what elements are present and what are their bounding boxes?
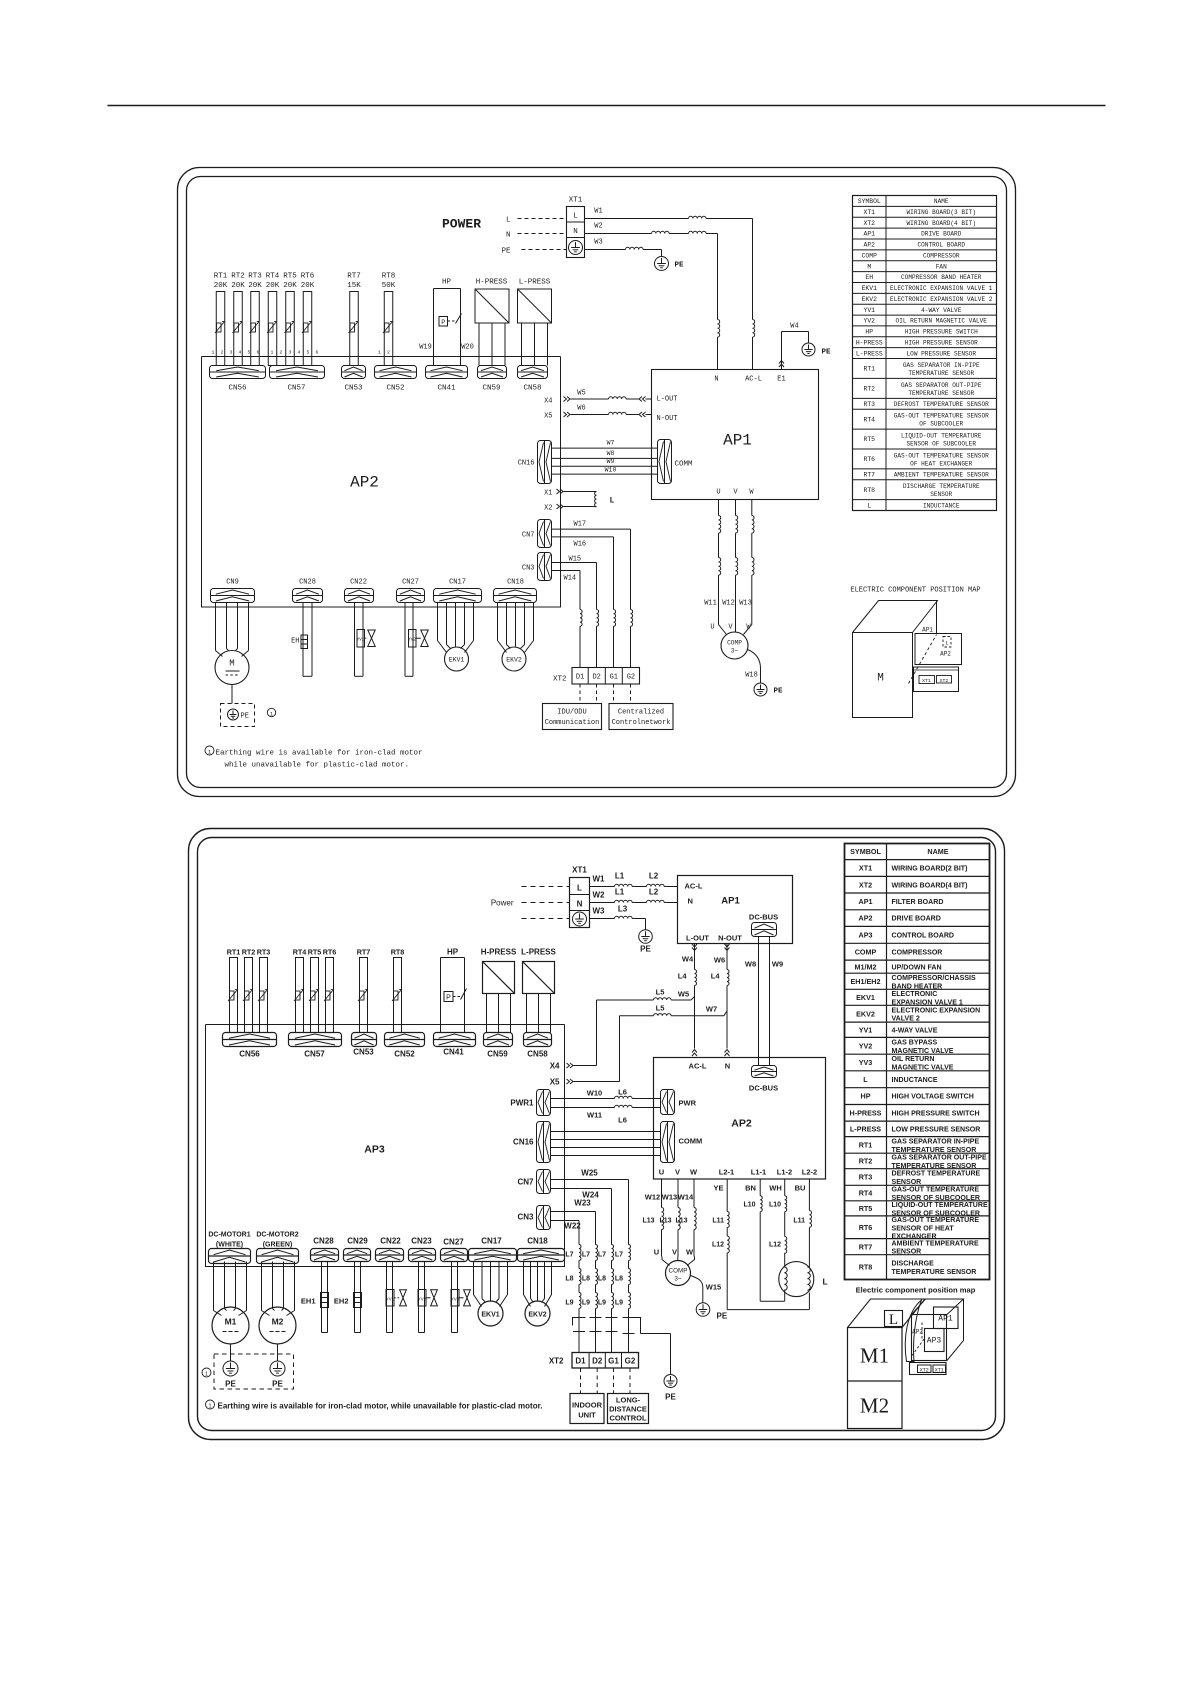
svg-text:EKV1: EKV1 [449,657,465,664]
svg-text:N: N [577,900,583,909]
svg-text:DC-MOTOR1: DC-MOTOR1 [208,1232,250,1239]
svg-text:INDUCTANCE: INDUCTANCE [892,1077,938,1084]
svg-text:3~: 3~ [731,648,739,655]
svg-text:COMP: COMP [862,252,878,259]
svg-text:YV1: YV1 [386,1297,395,1302]
svg-text:CN28: CN28 [313,1237,334,1246]
4-way valve YV1 (panel 1) [355,603,376,677]
wire W22 [551,1221,582,1245]
wire YE with beads L11 L12 [712,1179,809,1310]
svg-text:YE: YE [713,1184,723,1193]
svg-text:6: 6 [257,350,260,356]
connector CN18 (panel 1) [494,579,537,603]
connector CN57 (panel 2) [289,1033,342,1059]
svg-text:UP/DOWN FAN: UP/DOWN FAN [892,964,942,971]
svg-text:W2: W2 [593,891,606,900]
svg-text:EKV1: EKV1 [856,993,875,1002]
position map unit body M (panel 1) [853,601,938,718]
svg-text:CN22: CN22 [380,1237,401,1246]
svg-text:GAS SEPARATOR IN-PIPE: GAS SEPARATOR IN-PIPE [892,1139,980,1146]
svg-text:3: 3 [289,350,292,356]
svg-text:YV1: YV1 [863,307,875,314]
svg-text:CN28: CN28 [299,579,316,587]
svg-text:RT7: RT7 [863,472,875,479]
svg-text:WH: WH [769,1184,782,1193]
svg-text:LOW PRESSURE SENSOR: LOW PRESSURE SENSOR [907,350,977,357]
svg-text:CN7: CN7 [517,1178,534,1187]
connector CN57 [270,366,325,393]
thermistor RT8 50K [382,273,396,366]
svg-text:BU: BU [795,1184,806,1193]
svg-text:XT2: XT2 [863,220,875,227]
svg-text:ELECTRONIC EXPANSION: ELECTRONIC EXPANSION [892,1007,981,1014]
electric component position map title (panel 1) [850,587,980,595]
svg-text:CN41: CN41 [437,385,456,393]
wire W4 with bead L4 [678,944,697,1049]
connector DC-MOTOR1 (WHITE) [208,1232,250,1264]
svg-text:W3: W3 [593,907,606,916]
svg-text:NAME: NAME [927,847,948,856]
svg-text:COMM: COMM [675,461,694,469]
wire W1 [585,208,753,320]
svg-text:L11: L11 [712,1218,724,1225]
connector CN7 (panel 1) [522,520,552,548]
oil return magnetic valve YV3 (panel 2) [451,1262,470,1333]
svg-text:L: L [945,640,948,647]
svg-text:XT2: XT2 [549,1357,564,1366]
drive board AP1 box [652,370,819,500]
svg-text:YV3: YV3 [451,1297,460,1302]
connector CN58 [518,366,548,393]
svg-text:L7: L7 [565,1252,573,1259]
svg-text:CN22: CN22 [350,579,367,587]
svg-text:L8: L8 [598,1276,606,1283]
position map AP2 label [912,1329,923,1336]
svg-text:CN27: CN27 [402,579,419,587]
svg-text:AP3: AP3 [859,930,873,939]
svg-text:W13: W13 [739,600,752,608]
svg-text:DISTANCE: DISTANCE [609,1405,647,1414]
svg-text:RT2: RT2 [863,386,875,393]
svg-text:PE: PE [822,349,832,357]
svg-text:POWER: POWER [442,217,481,232]
svg-text:PE: PE [225,1380,236,1389]
svg-text:W11: W11 [587,1111,602,1120]
wire W14 with bead L13 [675,1179,696,1257]
wire W2 with beads L1 L2 [590,888,678,903]
ferrite beads on communication wires [580,610,633,668]
svg-text:LIQUID-OUT TEMPERATURE: LIQUID-OUT TEMPERATURE [901,432,982,439]
electronic expansion valve EKV1 (panel 2) [474,1262,508,1327]
svg-text:FAN: FAN [936,263,947,270]
svg-text:AMBIENT TEMPERATURE SENSOR: AMBIENT TEMPERATURE SENSOR [894,472,989,479]
svg-text:CN52: CN52 [394,1050,415,1059]
svg-text:L5: L5 [656,988,665,997]
pin numbers above CN57 [271,350,319,356]
svg-text:RT1: RT1 [227,948,241,957]
connector CN28 (panel 1) [293,579,323,603]
svg-text:INDOOR: INDOOR [572,1401,603,1410]
svg-text:YV2: YV2 [859,1041,873,1050]
filter board AP1 (panel 2) [678,876,793,944]
svg-text:HP: HP [442,279,452,287]
svg-text:L12: L12 [769,1242,781,1249]
svg-text:LONG-: LONG- [616,1396,641,1405]
connector CN17 (panel 1) [434,579,482,603]
electronic expansion valve EKV1 (panel 1) [438,603,474,672]
Centralized Control network box [609,684,673,730]
svg-text:WIRING BOARD(4 BIT): WIRING BOARD(4 BIT) [892,882,968,889]
panel 2 frame [189,829,1005,1440]
svg-text:L2-2: L2-2 [802,1168,817,1177]
PWR port on AP2 [661,1090,697,1115]
svg-text:20K: 20K [283,282,297,290]
svg-text:Earthing wire is available for: Earthing wire is available for iron-clad… [216,750,423,758]
svg-text:1: 1 [212,350,215,356]
wire W3 with bead L3 [590,905,646,930]
wiring board XT1 (panel 1) [567,197,585,258]
svg-text:5: 5 [248,350,251,356]
svg-text:DC-BUS: DC-BUS [749,913,778,922]
band heater EH1 [301,1262,329,1333]
wire W13 [739,500,754,619]
wire W24 [551,1189,612,1245]
svg-text:G2: G2 [627,674,635,682]
svg-text:L8: L8 [615,1276,623,1283]
svg-text:DC-MOTOR2: DC-MOTOR2 [256,1232,298,1239]
svg-text:PE: PE [640,945,651,954]
thermistor RT4 20K [266,273,280,366]
svg-text:EH1: EH1 [301,1297,316,1306]
connector DC-MOTOR2 (GREEN) [256,1232,298,1264]
low pressure sensor L-PRESS (panel 2) [521,948,556,1033]
svg-text:CN56: CN56 [239,1050,260,1059]
connector CN16 (panel 1) [518,441,552,484]
wire W23 [551,1199,596,1245]
motor ground PE in dashed box [221,685,276,727]
svg-text:L9: L9 [598,1300,606,1307]
svg-text:LOW PRESSURE SENSOR: LOW PRESSURE SENSOR [892,1126,981,1133]
svg-text:GAS-OUT TEMPERATURE SENSOR: GAS-OUT TEMPERATURE SENSOR [894,413,989,420]
svg-text:15K: 15K [347,282,361,290]
svg-text:GAS BYPASS: GAS BYPASS [892,1039,938,1046]
svg-text:YV2: YV2 [863,318,875,325]
mains input Power lines (panel 2) [491,887,570,919]
svg-text:XT2: XT2 [920,1367,929,1373]
connector CN28 (panel 2) [311,1237,339,1262]
svg-text:CN7: CN7 [522,532,535,540]
connector CN17 (panel 2) [469,1237,517,1262]
svg-text:CONTROL BOARD: CONTROL BOARD [917,242,965,249]
beads L7 L8 L9 on communication wires [565,1245,630,1317]
note about earthing wire (panel 2) [206,1400,543,1411]
thermistor RT7 (panel 2) [357,948,371,1033]
svg-text:L-PRESS: L-PRESS [850,1124,881,1133]
svg-text:W9: W9 [772,960,783,969]
electronic expansion valve EKV2 (panel 1) [498,603,534,672]
svg-text:FILTER BOARD: FILTER BOARD [892,899,944,906]
svg-text:W7: W7 [706,1005,717,1014]
svg-text:W4: W4 [790,323,798,331]
svg-text:GAS SEPARATOR OUT-PIPE: GAS SEPARATOR OUT-PIPE [892,1155,987,1162]
svg-text:HP: HP [865,329,873,336]
fan motor M [215,603,249,685]
svg-text:G1: G1 [610,674,618,682]
svg-text:XT1: XT1 [859,864,872,873]
wire W3 [585,239,662,257]
svg-text:20K: 20K [248,282,262,290]
svg-text:W14: W14 [678,1193,694,1202]
svg-text:N-OUT: N-OUT [657,415,678,423]
svg-text:U: U [716,489,720,497]
connector CN22 (panel 2) [376,1237,404,1262]
svg-text:V: V [675,1168,680,1177]
svg-text:AP1: AP1 [922,627,933,634]
electronic expansion valve EKV2 (panel 2) [524,1262,552,1327]
svg-text:WIRING BOARD(4 BIT): WIRING BOARD(4 BIT) [907,220,976,227]
wire W12 with bead L13 [642,1179,663,1257]
svg-text:L13: L13 [659,1218,671,1225]
svg-text:RT4: RT4 [293,948,307,957]
svg-text:COMPRESSOR/CHASSIS: COMPRESSOR/CHASSIS [892,975,976,982]
svg-text:RT3: RT3 [859,1173,873,1182]
position map terminal tray XT2 XT1 (panel 2) [910,1363,947,1375]
svg-text:GAS-OUT TEMPERATURE SENSOR: GAS-OUT TEMPERATURE SENSOR [894,452,989,459]
svg-text:W10: W10 [587,1089,602,1098]
svg-text:W7: W7 [607,440,615,447]
svg-text:RT3: RT3 [248,273,262,281]
svg-text:CN53: CN53 [353,1048,374,1057]
wire W13 with bead L13 [659,1179,680,1257]
svg-text:W19: W19 [419,344,432,352]
svg-text:L: L [823,1277,828,1287]
wire WH with beads L10 L12 [769,1179,787,1267]
connector CN41 (panel 2) [434,1033,476,1057]
ground PE after W3 (panel 2) [639,930,653,954]
svg-text:L: L [577,884,582,893]
svg-text:XT1: XT1 [863,209,875,216]
svg-text:W17: W17 [574,521,587,529]
node X5 / wire W6 [544,405,651,421]
comm wires W7 W8 W9 W10 [552,440,658,475]
svg-text:L2-1: L2-1 [719,1168,734,1177]
svg-text:CN57: CN57 [287,385,305,393]
down fan motor M2 [259,1262,296,1345]
svg-text:CN59: CN59 [487,1050,508,1059]
svg-text:XT2: XT2 [940,678,949,684]
svg-text:E1: E1 [777,376,785,384]
svg-text:SENSOR OF SUBCOOLER: SENSOR OF SUBCOOLER [907,440,977,447]
svg-text:W15: W15 [706,1283,721,1292]
svg-text:CN17: CN17 [481,1237,502,1246]
svg-text:DRIVE BOARD: DRIVE BOARD [892,916,941,923]
svg-text:RT7: RT7 [347,273,361,281]
svg-text:EH: EH [865,274,873,281]
connector CN27 (panel 1) [397,579,425,603]
connector CN18 (panel 2) [518,1237,565,1262]
svg-text:AP2: AP2 [940,651,951,658]
svg-text:L8: L8 [582,1276,590,1283]
svg-text:CN41: CN41 [443,1048,464,1057]
connector CN58 (panel 2) [524,1033,552,1059]
svg-text:GAS-OUT TEMPERATURE: GAS-OUT TEMPERATURE [892,1217,980,1224]
svg-text:W14: W14 [564,575,577,583]
connector CN3 (panel 2) [517,1206,550,1230]
connector CN56 [210,366,266,393]
svg-text:H-PRESS: H-PRESS [856,339,883,346]
wire W15 [552,556,597,610]
svg-text:RT7: RT7 [859,1242,873,1251]
svg-text:DRIVE BOARD: DRIVE BOARD [921,231,962,238]
connector CN23 (panel 2) [409,1237,436,1262]
thermistor RT8 (panel 2) [391,948,405,1033]
page top rule [108,105,1106,107]
svg-text:UNIT: UNIT [578,1411,596,1420]
svg-text:M1: M1 [860,1344,889,1368]
wire W15 and compressor ground PE (panel 2) [691,1276,728,1321]
gas bypass magnetic valve YV2 (panel 2) [418,1262,437,1333]
svg-text:COMPRESSOR: COMPRESSOR [892,949,943,956]
electric component position map title (panel 2) [856,1286,976,1295]
svg-text:PWR: PWR [679,1099,697,1108]
svg-text:Communication: Communication [545,719,600,727]
node X4 / wire W5 [544,390,651,406]
svg-text:W3: W3 [594,239,602,247]
svg-text:OIL RETURN: OIL RETURN [892,1056,935,1063]
svg-text:YV1: YV1 [357,639,365,643]
svg-text:YV1: YV1 [859,1025,873,1034]
svg-text:COMP: COMP [727,640,742,647]
svg-text:N: N [714,376,718,384]
svg-text:W23: W23 [574,1199,591,1208]
svg-text:EKV1: EKV1 [481,1312,499,1319]
svg-text:W11: W11 [704,600,717,608]
svg-text:L1: L1 [615,872,625,881]
svg-text:CN17: CN17 [449,579,466,587]
svg-text:CN57: CN57 [304,1050,325,1059]
svg-text:AP1: AP1 [859,897,873,906]
svg-text:L9: L9 [615,1300,623,1307]
connector CN56 (panel 2) [223,1033,277,1059]
svg-text:50K: 50K [382,282,396,290]
high pressure sensor H-PRESS (panel 1) [475,279,509,366]
svg-text:SENSOR: SENSOR [930,491,952,498]
svg-text:RT1: RT1 [859,1141,873,1150]
svg-text:CN23: CN23 [411,1237,432,1246]
svg-text:HIGH PRESSURE SWITCH: HIGH PRESSURE SWITCH [905,329,978,336]
wire W1 with beads L1 L2 [590,872,678,887]
svg-text:EH1/EH2: EH1/EH2 [851,977,881,986]
svg-text:M1: M1 [225,1317,237,1327]
svg-text:AP1: AP1 [721,896,740,907]
svg-text:ELECTRONIC EXPANSION VALVE 2: ELECTRONIC EXPANSION VALVE 2 [890,296,993,303]
svg-text:L13: L13 [675,1218,687,1225]
svg-text:L9: L9 [565,1300,573,1307]
svg-text:5: 5 [307,350,310,356]
svg-text:W2: W2 [594,223,602,231]
svg-text:XT1: XT1 [935,1367,944,1373]
thermistor RT3 20K [248,273,262,366]
svg-text:YV2: YV2 [418,1297,427,1302]
svg-text:N: N [725,1062,730,1071]
wire W11 [704,500,721,619]
svg-text:EKV1: EKV1 [862,285,878,292]
high pressure switch H-PRESS (panel 2) [481,948,517,1033]
svg-text:HIGH VOLTAGE SWITCH: HIGH VOLTAGE SWITCH [892,1094,974,1101]
svg-text:W12: W12 [722,600,735,608]
wiring board XT2 (panel 2) [549,1353,639,1369]
svg-text:W20: W20 [461,344,474,352]
svg-text:RT5: RT5 [863,436,875,443]
svg-text:AC-L: AC-L [745,376,762,384]
wire W4 and ground PE at E1 [779,323,831,370]
svg-text:M: M [229,659,234,669]
wire W5 with bead L5 from X4 [550,988,695,1071]
svg-text:CONTROL: CONTROL [609,1414,646,1423]
connector CN9 [211,579,255,603]
svg-text:W13: W13 [662,1193,677,1202]
svg-text:RT2: RT2 [231,273,245,281]
wire BU with bead L11 [793,1179,811,1267]
position map fan blade arc [905,1300,921,1362]
position map inductance L box [885,1311,903,1329]
DC-BUS port on AP2 [749,1066,778,1093]
pin numbers above CN52 [378,350,390,356]
svg-text:L-OUT: L-OUT [657,396,678,404]
wire W7 with bead L5 from X5 [550,1004,728,1087]
svg-text:L: L [573,213,578,221]
wire W25 [551,1169,629,1245]
symbol table (panel 1) [853,196,997,511]
svg-text:(GREEN): (GREEN) [263,1242,293,1249]
wire W17 [552,521,631,610]
svg-text:Earthing wire is available for: Earthing wire is available for iron-clad… [218,1402,543,1411]
compressor COMP (panel 1) [710,619,751,660]
cable shield clamp above XT2 [573,1317,671,1375]
svg-text:W12: W12 [645,1193,660,1202]
svg-text:XT1: XT1 [572,866,587,875]
svg-text:PWR1: PWR1 [510,1099,534,1108]
ground PE after W3 [655,257,685,271]
svg-text:TEMPERATURE SENSOR: TEMPERATURE SENSOR [892,1269,977,1276]
control board AP3 box [206,1025,565,1267]
svg-text:N: N [506,232,511,240]
svg-text:20K: 20K [266,282,280,290]
svg-text:IDU/ODU: IDU/ODU [557,709,586,717]
svg-text:L7: L7 [582,1252,590,1259]
svg-text:DEFROST TEMPERATURE: DEFROST TEMPERATURE [892,1171,981,1178]
svg-text:W5: W5 [678,990,689,999]
svg-text:L-OUT: L-OUT [686,934,709,943]
svg-text:D2: D2 [592,674,600,682]
wire W16 [552,537,614,610]
svg-text:PE: PE [717,1312,728,1321]
mains input lines L N PE (panel 1) [501,217,566,256]
svg-text:RT8: RT8 [863,487,875,494]
thermistor RT1 (panel 2) [227,948,241,1033]
svg-text:WIRING BOARD(3 BIT): WIRING BOARD(3 BIT) [907,209,976,216]
svg-text:RT7: RT7 [357,948,371,957]
svg-text:L7: L7 [598,1252,606,1259]
svg-text:RT6: RT6 [859,1223,873,1232]
svg-text:W1: W1 [593,875,606,884]
oil return magnetic valve YV2 (panel 1) [405,603,428,677]
svg-text:CN58: CN58 [523,385,541,393]
thermistor RT7 15K [347,273,361,366]
svg-text:ELECTRONIC: ELECTRONIC [892,991,938,998]
svg-text:RT8: RT8 [382,273,396,281]
wire W6 with bead L4 [711,944,730,1049]
